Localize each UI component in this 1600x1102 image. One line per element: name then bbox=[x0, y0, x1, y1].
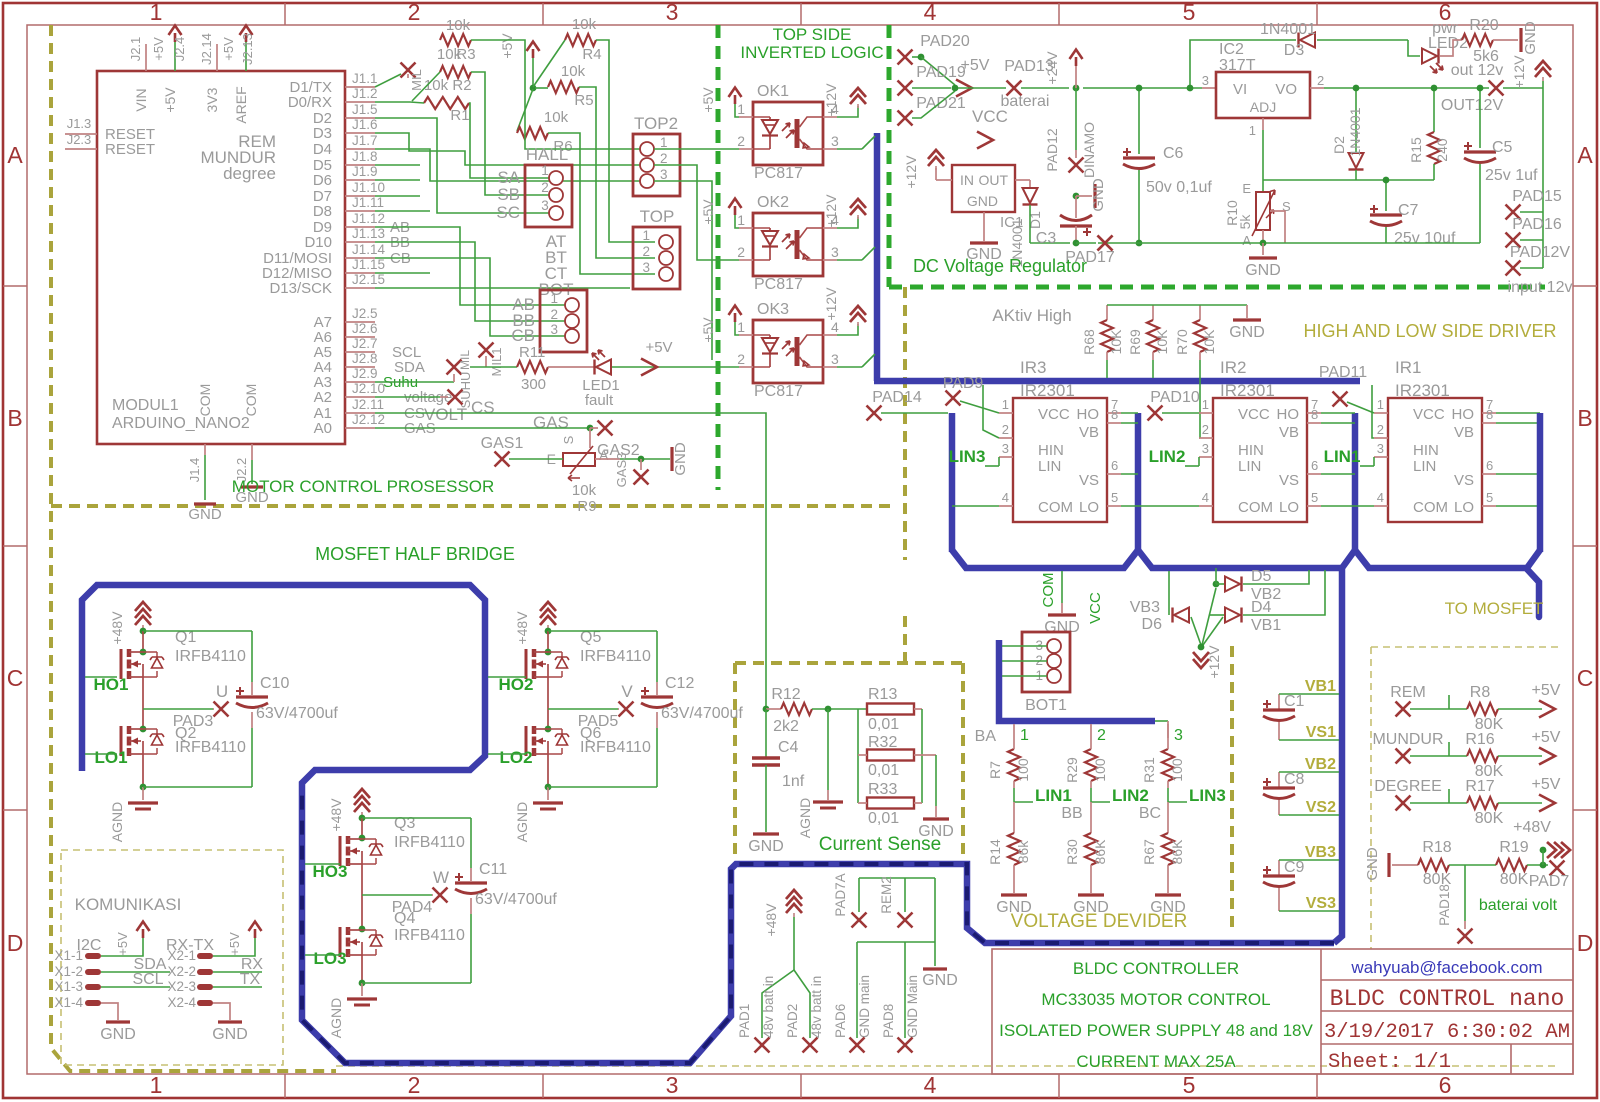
svg-text:J1.5: J1.5 bbox=[352, 102, 378, 117]
svg-text:INVERTED LOGIC: INVERTED LOGIC bbox=[740, 43, 883, 62]
svg-text:+12V: +12V bbox=[823, 83, 839, 117]
svg-text:J2.5: J2.5 bbox=[352, 306, 378, 321]
wire RX bbox=[213, 971, 262, 973]
svg-text:GND: GND bbox=[1522, 21, 1539, 55]
wire ADJ rail bbox=[1263, 179, 1434, 181]
wire R1 to HALL SA bbox=[469, 103, 549, 178]
svg-text:PAD19: PAD19 bbox=[916, 64, 966, 81]
svg-text:D10: D10 bbox=[304, 234, 332, 251]
transistor Q1 IRFB4110 bbox=[142, 631, 144, 652]
svg-text:AREF: AREF bbox=[233, 86, 249, 123]
svg-text:R5: R5 bbox=[574, 92, 593, 109]
supply +12V out bbox=[1535, 61, 1551, 77]
supply +5V arrow resnet bbox=[527, 42, 540, 59]
pad X PAD19 bbox=[898, 81, 913, 96]
supply +5V OK3 bbox=[735, 322, 739, 335]
svg-text:3: 3 bbox=[541, 198, 549, 213]
svg-text:6: 6 bbox=[1439, 1072, 1452, 1098]
net VS3 rail bbox=[1279, 910, 1339, 912]
svg-text:2: 2 bbox=[1377, 422, 1384, 437]
svg-text:BOT1: BOT1 bbox=[1025, 697, 1067, 714]
wire LED1 to +5V arrow and OK3 pin2 bbox=[612, 366, 739, 368]
svg-text:2: 2 bbox=[1097, 727, 1106, 744]
svg-text:D: D bbox=[7, 930, 24, 956]
wire J1.2 to R1 bbox=[375, 101, 410, 103]
supply +5V i2c bbox=[101, 938, 143, 956]
capacitor C10 bbox=[143, 630, 252, 632]
svg-text:LIN1: LIN1 bbox=[1324, 447, 1361, 466]
svg-text:R15: R15 bbox=[1408, 137, 1424, 163]
supply +5V OK1 bbox=[735, 104, 739, 117]
svg-text:1: 1 bbox=[1002, 397, 1009, 412]
ground C4 bbox=[753, 832, 779, 835]
svg-text:PAD12V: PAD12V bbox=[1510, 244, 1571, 261]
svg-text:3: 3 bbox=[1202, 73, 1209, 88]
pad X PAD6 bbox=[850, 1038, 865, 1053]
svg-text:J1.14: J1.14 bbox=[352, 242, 386, 257]
svg-text:fault: fault bbox=[585, 392, 614, 409]
svg-text:J2.1: J2.1 bbox=[128, 37, 143, 62]
svg-text:86K: 86K bbox=[1092, 839, 1108, 865]
supply +12V OK1 bbox=[837, 106, 858, 117]
svg-text:63V/4700uf: 63V/4700uf bbox=[661, 705, 743, 722]
module MODUL1 ARDUINO_NANO2 box bbox=[97, 71, 345, 444]
svg-text:baterai volt: baterai volt bbox=[1479, 897, 1558, 914]
svg-text:J1.9: J1.9 bbox=[352, 164, 378, 179]
svg-text:ARDUINO_NANO2: ARDUINO_NANO2 bbox=[112, 415, 250, 432]
svg-text:25v 10uf: 25v 10uf bbox=[1394, 230, 1456, 247]
wire ADJ bbox=[1262, 118, 1264, 130]
svg-text:VB2: VB2 bbox=[1305, 756, 1336, 773]
svg-text:5: 5 bbox=[1311, 490, 1318, 505]
led LED1 bbox=[548, 366, 596, 368]
supply +5V OK2 bbox=[735, 215, 739, 228]
svg-text:2: 2 bbox=[550, 307, 558, 322]
svg-text:4: 4 bbox=[1002, 490, 1009, 505]
resistor R70 10K bbox=[1199, 305, 1201, 320]
svg-text:D: D bbox=[1577, 930, 1594, 956]
bus bridge IR2-IR1 bbox=[1138, 550, 1344, 568]
wire OK3 pin3 bus entry bbox=[837, 366, 862, 368]
svg-text:C3: C3 bbox=[1036, 230, 1057, 247]
svg-text:48v batt in: 48v batt in bbox=[761, 976, 776, 1038]
svg-text:IR2301: IR2301 bbox=[1020, 381, 1075, 400]
resistor R69 10K bbox=[1152, 305, 1154, 320]
svg-text:GND main: GND main bbox=[857, 975, 872, 1038]
svg-text:+5V: +5V bbox=[115, 932, 130, 956]
svg-text:240: 240 bbox=[1434, 138, 1450, 162]
svg-text:LIN: LIN bbox=[1038, 458, 1061, 475]
ground X1-4 bbox=[101, 1003, 118, 1020]
svg-text:+48V: +48V bbox=[514, 611, 530, 645]
supply +48V Q5 bbox=[540, 602, 556, 625]
capacitor C9 bbox=[1278, 860, 1280, 875]
supply +12V divider bbox=[1202, 588, 1216, 645]
svg-text:C: C bbox=[7, 665, 24, 691]
svg-text:2: 2 bbox=[737, 244, 745, 260]
svg-text:100: 100 bbox=[1015, 758, 1031, 782]
svg-text:3: 3 bbox=[1002, 441, 1009, 456]
svg-text:J1.2: J1.2 bbox=[352, 86, 378, 101]
resistor R67 86K bbox=[1162, 833, 1174, 865]
svg-text:VCC: VCC bbox=[1238, 406, 1270, 423]
wire CS long bbox=[375, 413, 766, 709]
pad X PAD7A bbox=[852, 913, 867, 928]
svg-text:VO: VO bbox=[1275, 81, 1297, 98]
svg-text:D8: D8 bbox=[313, 203, 332, 220]
wire D3 branch bbox=[1190, 40, 1296, 88]
svg-text:E: E bbox=[1242, 181, 1251, 196]
transistor Q4 IRFB4110 bbox=[359, 926, 366, 933]
svg-text:VIN: VIN bbox=[133, 88, 149, 111]
phase node V wire bbox=[548, 708, 618, 710]
svg-text:6: 6 bbox=[1486, 458, 1493, 473]
bus lower loop around sections bbox=[82, 585, 1334, 1063]
svg-text:3: 3 bbox=[1202, 441, 1209, 456]
pad X gas bbox=[590, 427, 598, 429]
wire TOP2 pin1 to OK1 pin2 bbox=[654, 148, 739, 150]
wire J1.11 stub bbox=[375, 210, 430, 212]
svg-text:D13/SCK: D13/SCK bbox=[269, 280, 332, 297]
svg-text:OK3: OK3 bbox=[757, 301, 789, 318]
pad X voltage bbox=[448, 390, 463, 405]
wire R10 bottom bbox=[1262, 230, 1264, 243]
pad X PAD7 bbox=[1550, 861, 1565, 876]
ground regulator bbox=[1262, 243, 1264, 255]
ground IC1 bbox=[983, 212, 985, 241]
wire AB J1.12 to BOT pin1 bbox=[375, 227, 565, 305]
svg-text:+5V: +5V bbox=[1532, 776, 1561, 793]
wire diag to R4 bbox=[533, 40, 565, 87]
resistor R13 0,01 bbox=[867, 704, 914, 715]
svg-text:10K: 10K bbox=[1154, 329, 1170, 355]
svg-text:+48V: +48V bbox=[328, 798, 344, 832]
svg-text:+5V: +5V bbox=[700, 317, 716, 343]
wire voltage bbox=[375, 396, 440, 398]
svg-text:5k: 5k bbox=[1237, 214, 1253, 230]
net labels LIN1 LIN2 LIN3 divider bbox=[1013, 788, 1015, 802]
svg-text:5k6: 5k6 bbox=[1473, 48, 1499, 65]
svg-text:VB: VB bbox=[1454, 424, 1474, 441]
section border dc-voltage-regulator green dashed bbox=[887, 25, 892, 287]
svg-text:1: 1 bbox=[550, 291, 558, 306]
ground AGND Q2 bbox=[128, 801, 158, 804]
wire HO3 gate bbox=[305, 863, 340, 865]
svg-text:R33: R33 bbox=[868, 781, 897, 798]
svg-text:PAD16: PAD16 bbox=[1512, 216, 1562, 233]
svg-text:48v batt in: 48v batt in bbox=[809, 976, 824, 1038]
wire J1.10 stub bbox=[375, 195, 420, 197]
svg-text:3: 3 bbox=[1377, 441, 1384, 456]
diode D4 VB1 bbox=[1210, 614, 1225, 616]
svg-text:BB: BB bbox=[1061, 805, 1082, 822]
svg-text:J2.8: J2.8 bbox=[352, 351, 378, 366]
svg-text:GND: GND bbox=[1044, 619, 1080, 636]
section border top-side-inverted-logic green dashed bbox=[716, 25, 721, 490]
svg-text:MOTOR CONTROL PROSESSOR: MOTOR CONTROL PROSESSOR bbox=[232, 477, 495, 496]
svg-text:J1.6: J1.6 bbox=[352, 117, 378, 132]
svg-text:R68: R68 bbox=[1081, 329, 1097, 355]
pad X PAD8 bbox=[898, 1038, 913, 1053]
svg-text:+5V: +5V bbox=[645, 339, 672, 356]
bus BOT1 stub bbox=[999, 640, 1155, 721]
svg-text:MODUL1: MODUL1 bbox=[112, 397, 179, 414]
svg-text:GND: GND bbox=[1229, 324, 1265, 341]
svg-text:1: 1 bbox=[737, 319, 745, 335]
svg-text:OUT12V: OUT12V bbox=[1441, 97, 1504, 114]
wire IR3 COM to bus bbox=[952, 505, 999, 507]
svg-text:IR2: IR2 bbox=[1220, 358, 1246, 377]
wire resistor top rail bbox=[1107, 304, 1247, 306]
ground shunts bbox=[935, 806, 937, 817]
svg-text:5: 5 bbox=[1183, 0, 1196, 25]
svg-text:AGND: AGND bbox=[514, 802, 530, 842]
svg-text:+48V: +48V bbox=[1513, 819, 1551, 836]
resistor R6 bbox=[517, 127, 548, 139]
net label COM bbox=[1061, 571, 1063, 603]
svg-text:PAD20: PAD20 bbox=[920, 33, 970, 50]
svg-text:R1: R1 bbox=[450, 107, 469, 124]
resistor R12 2k2 bbox=[763, 706, 770, 713]
led LED2 pwr bbox=[1408, 40, 1420, 56]
section border bottom thin dashed bbox=[336, 1065, 1560, 1067]
svg-text:+5V: +5V bbox=[499, 33, 515, 59]
wire VO output rail bbox=[1310, 87, 1324, 89]
supply +48V input bbox=[786, 890, 802, 913]
pad X PAD21 bbox=[898, 111, 913, 126]
svg-text:GND Main: GND Main bbox=[905, 975, 920, 1038]
svg-text:+12V: +12V bbox=[823, 287, 839, 321]
svg-text:GND: GND bbox=[1245, 262, 1281, 279]
wire IR1 right pins to bus bbox=[1496, 412, 1540, 414]
optocoupler OK3 PC817 bbox=[753, 320, 823, 383]
svg-text:GAS3: GAS3 bbox=[614, 453, 629, 488]
svg-text:IR2301: IR2301 bbox=[1220, 381, 1275, 400]
svg-text:3: 3 bbox=[666, 0, 679, 25]
pad X PAD15 bbox=[1506, 205, 1521, 220]
svg-text:J1.10: J1.10 bbox=[352, 180, 385, 195]
svg-text:PAD11: PAD11 bbox=[1319, 364, 1367, 381]
svg-text:SC: SC bbox=[496, 203, 520, 222]
wire TOP2 pin2 to OK2 pin2 bbox=[654, 165, 739, 260]
svg-text:LIN: LIN bbox=[1413, 458, 1436, 475]
svg-text:2: 2 bbox=[1202, 422, 1209, 437]
supply +48V Q3 bbox=[354, 789, 370, 812]
svg-text:86k: 86k bbox=[1015, 840, 1031, 864]
svg-text:SB: SB bbox=[497, 185, 520, 204]
svg-text:PAD14: PAD14 bbox=[872, 389, 922, 406]
wire R2 to HALL SB bbox=[471, 72, 549, 195]
svg-text:1: 1 bbox=[150, 1072, 163, 1098]
svg-text:8: 8 bbox=[1311, 407, 1318, 422]
svg-text:J2.15: J2.15 bbox=[352, 272, 385, 287]
module bottom pins GND bbox=[204, 444, 206, 455]
resistor R4 bbox=[565, 34, 596, 46]
ground main bbox=[923, 967, 947, 970]
diode D6 VB3 bbox=[1168, 571, 1170, 615]
svg-text:1: 1 bbox=[1377, 397, 1384, 412]
svg-text:GAS: GAS bbox=[533, 413, 569, 432]
wire OK2 pin3 bus entry bbox=[837, 259, 862, 261]
svg-text:63V/4700uf: 63V/4700uf bbox=[475, 891, 557, 908]
svg-text:D0/RX: D0/RX bbox=[288, 94, 332, 111]
svg-text:IRFB4110: IRFB4110 bbox=[394, 834, 465, 851]
svg-text:LIN1: LIN1 bbox=[1035, 786, 1072, 805]
svg-text:VS1: VS1 bbox=[1306, 724, 1336, 741]
svg-text:1: 1 bbox=[150, 0, 163, 25]
title block box bbox=[992, 949, 1573, 1074]
wire BB J1.13 to BOT pin2 bbox=[375, 242, 565, 321]
svg-text:COM: COM bbox=[1413, 499, 1448, 516]
svg-text:R12: R12 bbox=[771, 686, 800, 703]
ground AGND Q4 bbox=[347, 997, 377, 1000]
diode D3 1N4001 bbox=[1300, 33, 1315, 48]
svg-text:BLDC CONTROLLER: BLDC CONTROLLER bbox=[1073, 959, 1239, 978]
wire PAD7A REM2 rails bbox=[859, 877, 935, 879]
svg-text:R17: R17 bbox=[1465, 778, 1494, 795]
svg-text:AGND: AGND bbox=[328, 998, 344, 1038]
ground gas bbox=[670, 447, 673, 471]
svg-text:+12V: +12V bbox=[1511, 55, 1527, 89]
svg-text:PC817: PC817 bbox=[754, 165, 803, 182]
svg-text:C12: C12 bbox=[665, 675, 694, 692]
wire bus end to IR1 pin2 bbox=[1372, 385, 1374, 438]
svg-text:LO1: LO1 bbox=[94, 748, 127, 767]
svg-text:LIN2: LIN2 bbox=[1149, 447, 1186, 466]
svg-text:R8: R8 bbox=[1470, 684, 1491, 701]
transistor Q6 IRFB4110 bbox=[545, 726, 552, 733]
gate driver IR2 IR2301 box bbox=[1213, 398, 1307, 522]
svg-text:DINAMO: DINAMO bbox=[1081, 122, 1097, 178]
pad X PAD17 bbox=[1076, 242, 1096, 244]
svg-text:R3: R3 bbox=[456, 46, 475, 63]
svg-text:R70: R70 bbox=[1174, 329, 1190, 355]
svg-text:CS: CS bbox=[471, 398, 495, 417]
grounds divider bbox=[1013, 865, 1015, 893]
svg-text:J1.7: J1.7 bbox=[352, 133, 378, 148]
svg-text:J1.13: J1.13 bbox=[352, 226, 385, 241]
wire bus to IR3 pin2 bbox=[983, 385, 999, 438]
svg-text:KOMUNIKASI: KOMUNIKASI bbox=[75, 895, 182, 914]
svg-text:GND: GND bbox=[1090, 178, 1107, 212]
pad X PAD3 bbox=[213, 708, 214, 710]
wire IR2 right pins to bus bbox=[1321, 412, 1355, 414]
svg-text:3: 3 bbox=[666, 1072, 679, 1098]
svg-text:X2-4: X2-4 bbox=[167, 995, 196, 1010]
svg-text:4: 4 bbox=[924, 0, 937, 25]
svg-text:J2.14: J2.14 bbox=[199, 33, 214, 65]
svg-text:0,01: 0,01 bbox=[868, 762, 899, 779]
svg-text:10k: 10k bbox=[572, 16, 597, 33]
diode D5 VB2 bbox=[1213, 581, 1220, 588]
svg-text:3: 3 bbox=[831, 244, 839, 260]
svg-text:COM: COM bbox=[197, 384, 213, 417]
capacitor C3 bbox=[1073, 193, 1080, 200]
wire out12v vertical bbox=[1542, 88, 1544, 268]
svg-text:D6: D6 bbox=[1142, 616, 1163, 633]
diode D1 1N4001 bbox=[1015, 179, 1030, 181]
svg-text:A: A bbox=[7, 142, 23, 168]
supply +12V OK2 bbox=[837, 217, 858, 228]
svg-text:TOP2: TOP2 bbox=[634, 114, 678, 133]
wire R5 to TOP pin2 BT bbox=[579, 87, 655, 258]
svg-text:VOLTAGE DEVIDER: VOLTAGE DEVIDER bbox=[1011, 911, 1188, 932]
svg-text:+5V: +5V bbox=[700, 87, 716, 113]
module left reset pins bbox=[65, 133, 97, 135]
svg-text:LO: LO bbox=[1454, 499, 1474, 516]
section border current-sense olive dashed bbox=[903, 287, 907, 560]
pad X PAD16 bbox=[1506, 233, 1521, 248]
wire Q3 source to Q4 drain bbox=[361, 864, 363, 929]
svg-text:R30: R30 bbox=[1064, 839, 1080, 865]
svg-text:8: 8 bbox=[1486, 407, 1493, 422]
svg-text:LO3: LO3 bbox=[313, 949, 346, 968]
svg-text:TX: TX bbox=[240, 971, 261, 988]
svg-text:IRFB4110: IRFB4110 bbox=[394, 927, 465, 944]
svg-text:PAD9: PAD9 bbox=[943, 375, 984, 392]
svg-text:10k: 10k bbox=[446, 17, 471, 34]
wire J1.8 stub bbox=[375, 164, 420, 166]
svg-text:Sheet: 1/1: Sheet: 1/1 bbox=[1328, 1051, 1451, 1074]
svg-text:AGND: AGND bbox=[109, 802, 125, 842]
resistor R7 100 bbox=[1008, 749, 1020, 781]
transistor Q2 IRFB4110 bbox=[140, 726, 147, 733]
svg-text:REM: REM bbox=[1390, 684, 1426, 701]
svg-text:R7: R7 bbox=[987, 761, 1003, 779]
resistor R15 240 bbox=[1433, 88, 1435, 132]
svg-text:input 12v: input 12v bbox=[1508, 279, 1573, 296]
bus bridge IR1 to-mosfet bbox=[1355, 550, 1539, 617]
svg-text:HIN: HIN bbox=[1038, 442, 1064, 459]
svg-text:D3: D3 bbox=[1284, 42, 1305, 59]
svg-text:3: 3 bbox=[831, 351, 839, 367]
wire battery fork bbox=[762, 970, 794, 1038]
resistor R5 bbox=[548, 81, 579, 93]
resistor R14 86k bbox=[1008, 833, 1020, 865]
svg-text:HO: HO bbox=[1277, 406, 1300, 423]
svg-text:IR3: IR3 bbox=[1020, 358, 1046, 377]
svg-text:DC Voltage Regulator: DC Voltage Regulator bbox=[913, 256, 1087, 276]
svg-text:J1.8: J1.8 bbox=[352, 149, 378, 164]
svg-text:Current Sense: Current Sense bbox=[819, 834, 942, 855]
wire shunt lefts bbox=[857, 709, 859, 803]
svg-text:PAD7: PAD7 bbox=[1529, 873, 1570, 890]
svg-text:2k2: 2k2 bbox=[773, 718, 799, 735]
svg-text:DEGREE: DEGREE bbox=[1374, 778, 1442, 795]
pad X PAD18 bbox=[1464, 865, 1466, 921]
pad X PAD13 baterai bbox=[1007, 81, 1022, 96]
svg-text:W: W bbox=[433, 868, 449, 887]
wire GAS bbox=[375, 427, 590, 429]
svg-text:X1-3: X1-3 bbox=[54, 979, 83, 994]
svg-text:GND: GND bbox=[748, 838, 784, 855]
supply +48V Q1 bbox=[135, 602, 151, 625]
pad X PAD14 bbox=[867, 406, 882, 421]
svg-text:D2: D2 bbox=[1331, 136, 1347, 154]
resistor R31 100 bbox=[1162, 749, 1174, 781]
svg-text:GND: GND bbox=[212, 1026, 248, 1043]
svg-text:IRFB4110: IRFB4110 bbox=[175, 648, 246, 665]
svg-text:MUNDUR: MUNDUR bbox=[1372, 731, 1443, 748]
svg-text:X2-1: X2-1 bbox=[167, 948, 196, 963]
svg-text:+12V: +12V bbox=[903, 155, 919, 189]
svg-text:HIN: HIN bbox=[1413, 442, 1439, 459]
svg-text:2: 2 bbox=[660, 151, 668, 166]
resistor R17 80K bbox=[1449, 802, 1467, 804]
svg-text:VB3: VB3 bbox=[1305, 844, 1336, 861]
net VS1 rail bbox=[1279, 739, 1339, 741]
svg-text:GND: GND bbox=[922, 972, 958, 989]
